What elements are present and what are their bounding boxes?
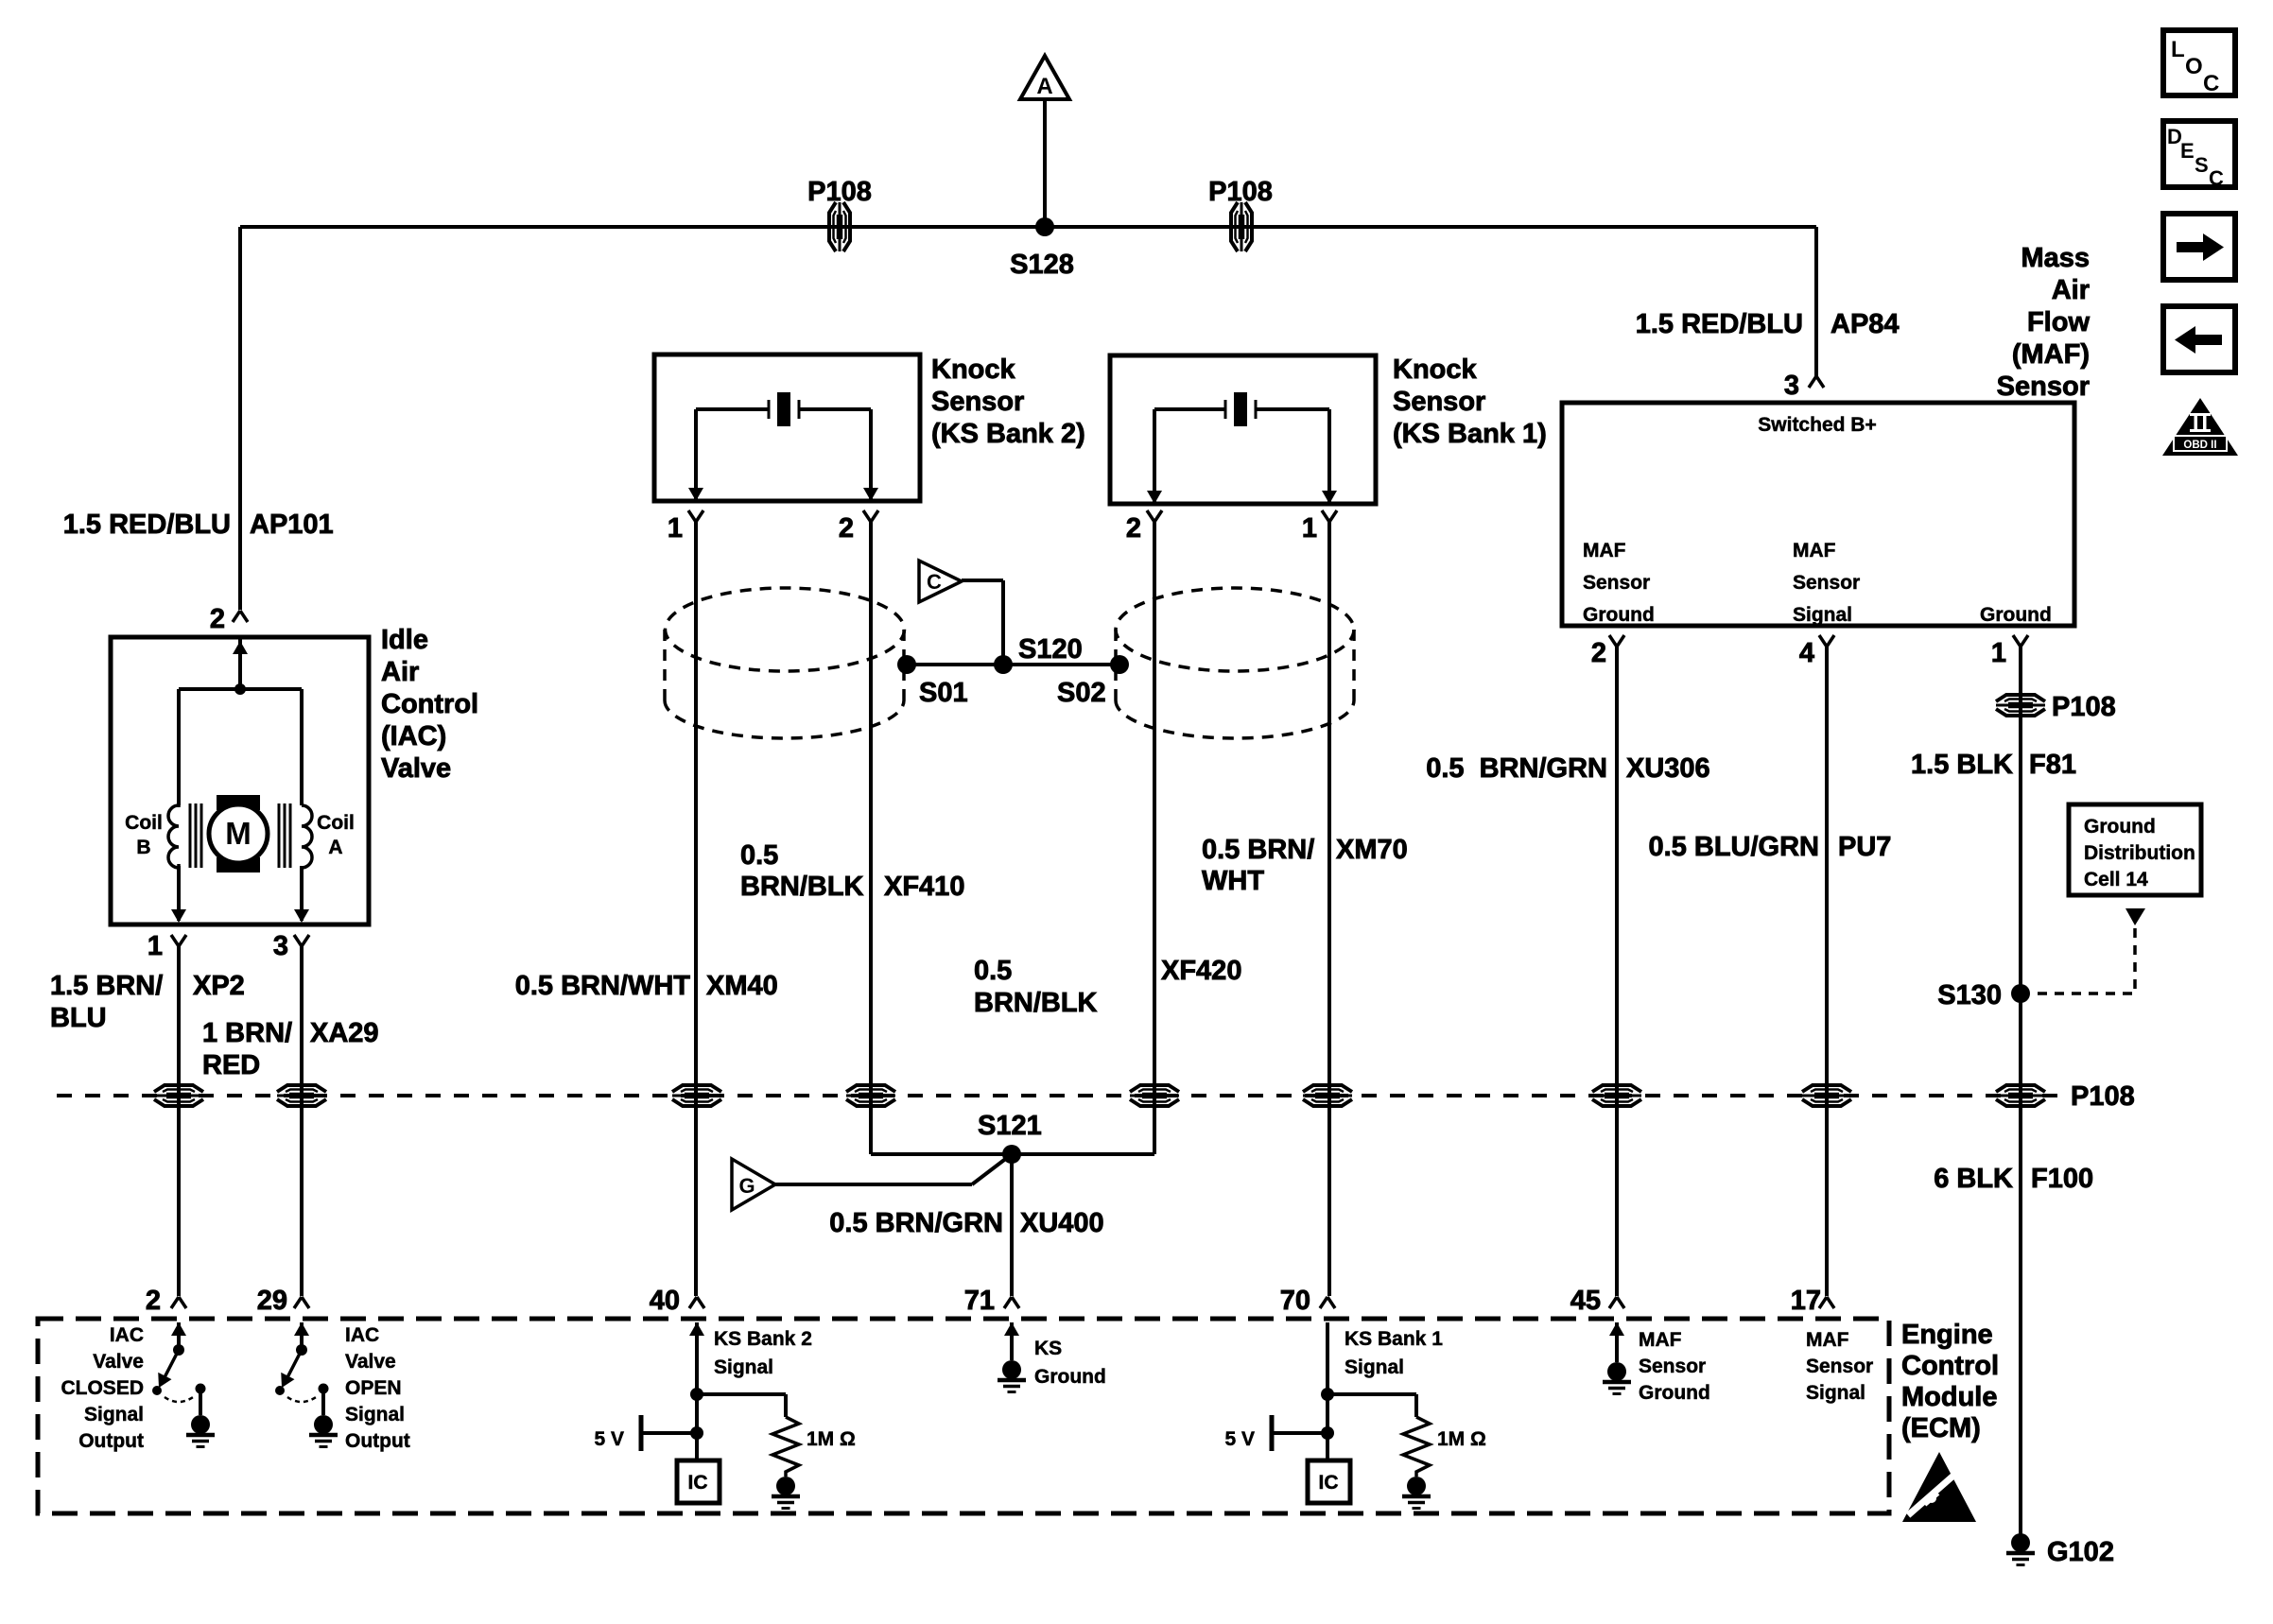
svg-text:S121: S121	[978, 1111, 1042, 1141]
svg-text:Coil: Coil	[125, 812, 163, 834]
svg-text:Output: Output	[345, 1430, 410, 1452]
svg-text:XM40: XM40	[706, 971, 778, 1001]
svg-text:Control: Control	[1901, 1351, 1999, 1381]
svg-text:F100: F100	[2031, 1164, 2093, 1194]
svg-text:Coil: Coil	[317, 812, 355, 834]
svg-text:(KS Bank 1): (KS Bank 1)	[1393, 419, 1547, 449]
svg-text:Sensor: Sensor	[1793, 572, 1860, 594]
svg-text:C: C	[927, 570, 942, 594]
svg-text:KS Bank 2: KS Bank 2	[714, 1328, 812, 1350]
svg-text:0.5: 0.5	[974, 956, 1012, 986]
svg-text:1: 1	[1991, 638, 2006, 668]
svg-text:17: 17	[1791, 1286, 1821, 1316]
svg-text:OBD II: OBD II	[2183, 440, 2216, 451]
svg-text:Output: Output	[78, 1430, 144, 1452]
svg-text:G: G	[738, 1174, 755, 1198]
svg-text:Idle: Idle	[381, 625, 428, 655]
svg-text:0.5 BLU/GRN: 0.5 BLU/GRN	[1649, 832, 1819, 862]
svg-text:Knock: Knock	[1393, 354, 1478, 385]
svg-text:Sensor: Sensor	[1806, 1356, 1873, 1377]
svg-text:0.5: 0.5	[740, 840, 778, 871]
svg-text:A: A	[1036, 74, 1052, 99]
svg-text:S: S	[2195, 153, 2209, 177]
svg-text:0.5 BRN/GRN: 0.5 BRN/GRN	[829, 1208, 1003, 1238]
svg-text:F81: F81	[2029, 750, 2076, 780]
svg-text:KS: KS	[1034, 1338, 1062, 1359]
svg-text:1M Ω: 1M Ω	[807, 1428, 856, 1450]
svg-text:1 BRN/: 1 BRN/	[202, 1018, 292, 1048]
svg-text:G102: G102	[2047, 1537, 2114, 1567]
svg-text:Valve: Valve	[381, 753, 451, 784]
svg-text:IC: IC	[1319, 1472, 1339, 1494]
svg-text:70: 70	[1280, 1286, 1310, 1316]
svg-text:OPEN: OPEN	[345, 1377, 402, 1399]
svg-text:AP84: AP84	[1831, 309, 1900, 339]
svg-text:40: 40	[650, 1286, 680, 1316]
svg-text:P108: P108	[1208, 177, 1273, 207]
svg-text:WHT: WHT	[1202, 866, 1264, 896]
svg-text:2: 2	[1126, 513, 1141, 544]
svg-text:4: 4	[1799, 638, 1814, 668]
svg-text:S01: S01	[919, 678, 968, 708]
svg-text:C: C	[2203, 71, 2219, 96]
svg-text:AP101: AP101	[250, 510, 334, 540]
svg-text:Sensor: Sensor	[1583, 572, 1650, 594]
svg-text:0.5 BRN/WHT: 0.5 BRN/WHT	[515, 971, 691, 1001]
svg-text:6 BLK: 6 BLK	[1934, 1164, 2013, 1194]
svg-text:Valve: Valve	[345, 1351, 396, 1373]
svg-text:MAF: MAF	[1806, 1329, 1849, 1351]
svg-text:(IAC): (IAC)	[381, 721, 446, 752]
svg-text:1.5 BLK: 1.5 BLK	[1911, 750, 2013, 780]
svg-text:2: 2	[146, 1286, 161, 1316]
svg-text:(KS Bank 2): (KS Bank 2)	[931, 419, 1085, 449]
svg-text:2: 2	[210, 604, 225, 634]
svg-text:(ECM): (ECM)	[1901, 1413, 1981, 1443]
svg-text:RED: RED	[202, 1050, 260, 1080]
svg-text:Signal: Signal	[1806, 1382, 1865, 1404]
svg-text:Knock: Knock	[931, 354, 1016, 385]
svg-text:L: L	[2171, 37, 2185, 62]
svg-text:A: A	[328, 837, 342, 858]
svg-text:Engine: Engine	[1901, 1320, 1993, 1350]
svg-text:O: O	[2185, 54, 2203, 79]
svg-text:BRN/BLK: BRN/BLK	[740, 872, 864, 902]
svg-text:1: 1	[147, 931, 163, 961]
svg-text:Switched B+: Switched B+	[1758, 414, 1876, 436]
svg-text:1.5 RED/BLU: 1.5 RED/BLU	[63, 510, 231, 540]
svg-text:1: 1	[1302, 513, 1317, 544]
svg-text:Mass: Mass	[2021, 243, 2090, 273]
svg-text:MAF: MAF	[1583, 540, 1626, 561]
svg-text:1: 1	[668, 513, 683, 544]
svg-text:Signal: Signal	[345, 1404, 405, 1425]
svg-text:Flow: Flow	[2027, 307, 2090, 337]
svg-text:Ground: Ground	[2084, 816, 2156, 838]
svg-text:29: 29	[257, 1286, 287, 1316]
svg-text:XF410: XF410	[884, 872, 964, 902]
svg-text:B: B	[136, 837, 150, 858]
svg-text:Air: Air	[381, 657, 419, 687]
svg-text:MAF: MAF	[1793, 540, 1836, 561]
svg-text:Ground: Ground	[1639, 1382, 1710, 1404]
svg-text:P108: P108	[807, 177, 872, 207]
svg-text:XA29: XA29	[310, 1018, 379, 1048]
svg-text:IC: IC	[688, 1472, 708, 1494]
svg-text:P108: P108	[2071, 1081, 2135, 1112]
svg-text:(MAF): (MAF)	[2012, 339, 2090, 370]
svg-text:Signal: Signal	[84, 1404, 144, 1425]
svg-text:XU400: XU400	[1020, 1208, 1104, 1238]
svg-text:C: C	[2209, 166, 2224, 190]
svg-text:Distribution: Distribution	[2084, 842, 2195, 864]
svg-text:PU7: PU7	[1838, 832, 1891, 862]
svg-text:Ground: Ground	[1583, 604, 1655, 626]
svg-text:1.5 RED/BLU: 1.5 RED/BLU	[1636, 309, 1803, 339]
svg-text:71: 71	[964, 1286, 995, 1316]
svg-text:S130: S130	[1937, 980, 2002, 1011]
svg-text:1.5 BRN/: 1.5 BRN/	[50, 971, 163, 1001]
svg-text:Air: Air	[2052, 275, 2090, 305]
svg-text:3: 3	[1784, 371, 1799, 401]
svg-text:S02: S02	[1057, 678, 1106, 708]
svg-text:45: 45	[1570, 1286, 1601, 1316]
svg-text:E: E	[2180, 139, 2195, 163]
svg-text:MAF: MAF	[1639, 1329, 1682, 1351]
svg-text:BLU: BLU	[50, 1003, 107, 1033]
svg-text:Signal: Signal	[714, 1356, 773, 1378]
svg-text:XM70: XM70	[1336, 835, 1408, 865]
svg-text:Control: Control	[381, 689, 478, 719]
svg-text:Sensor: Sensor	[1393, 387, 1485, 417]
svg-text:S128: S128	[1010, 250, 1074, 280]
svg-text:KS Bank 1: KS Bank 1	[1345, 1328, 1443, 1350]
svg-text:CLOSED: CLOSED	[61, 1377, 144, 1399]
svg-text:2: 2	[1591, 638, 1606, 668]
svg-text:Module: Module	[1901, 1382, 1998, 1412]
svg-text:XP2: XP2	[193, 971, 245, 1001]
svg-text:Signal: Signal	[1793, 604, 1852, 626]
svg-text:Valve: Valve	[93, 1351, 144, 1373]
svg-text:0.5 BRN/GRN: 0.5 BRN/GRN	[1426, 753, 1607, 784]
svg-text:Sensor: Sensor	[1997, 371, 2090, 402]
svg-text:5 V: 5 V	[594, 1428, 624, 1450]
svg-text:3: 3	[273, 931, 288, 961]
svg-text:Cell 14: Cell 14	[2084, 869, 2148, 890]
svg-text:Signal: Signal	[1345, 1356, 1404, 1378]
svg-text:IAC: IAC	[110, 1324, 144, 1346]
svg-text:P108: P108	[2052, 692, 2116, 722]
svg-text:M: M	[225, 816, 252, 851]
svg-text:BRN/BLK: BRN/BLK	[974, 988, 1098, 1018]
svg-text:XU306: XU306	[1626, 753, 1710, 784]
svg-text:Sensor: Sensor	[931, 387, 1024, 417]
svg-text:5 V: 5 V	[1224, 1428, 1255, 1450]
svg-text:Ground: Ground	[1980, 604, 2052, 626]
svg-text:Ground: Ground	[1034, 1366, 1106, 1388]
svg-text:0.5 BRN/: 0.5 BRN/	[1202, 835, 1314, 865]
svg-text:2: 2	[839, 513, 854, 544]
svg-text:IAC: IAC	[345, 1324, 379, 1346]
svg-text:S120: S120	[1018, 634, 1083, 665]
svg-text:1M Ω: 1M Ω	[1437, 1428, 1486, 1450]
svg-text:XF420: XF420	[1161, 956, 1241, 986]
svg-text:Sensor: Sensor	[1639, 1356, 1706, 1377]
